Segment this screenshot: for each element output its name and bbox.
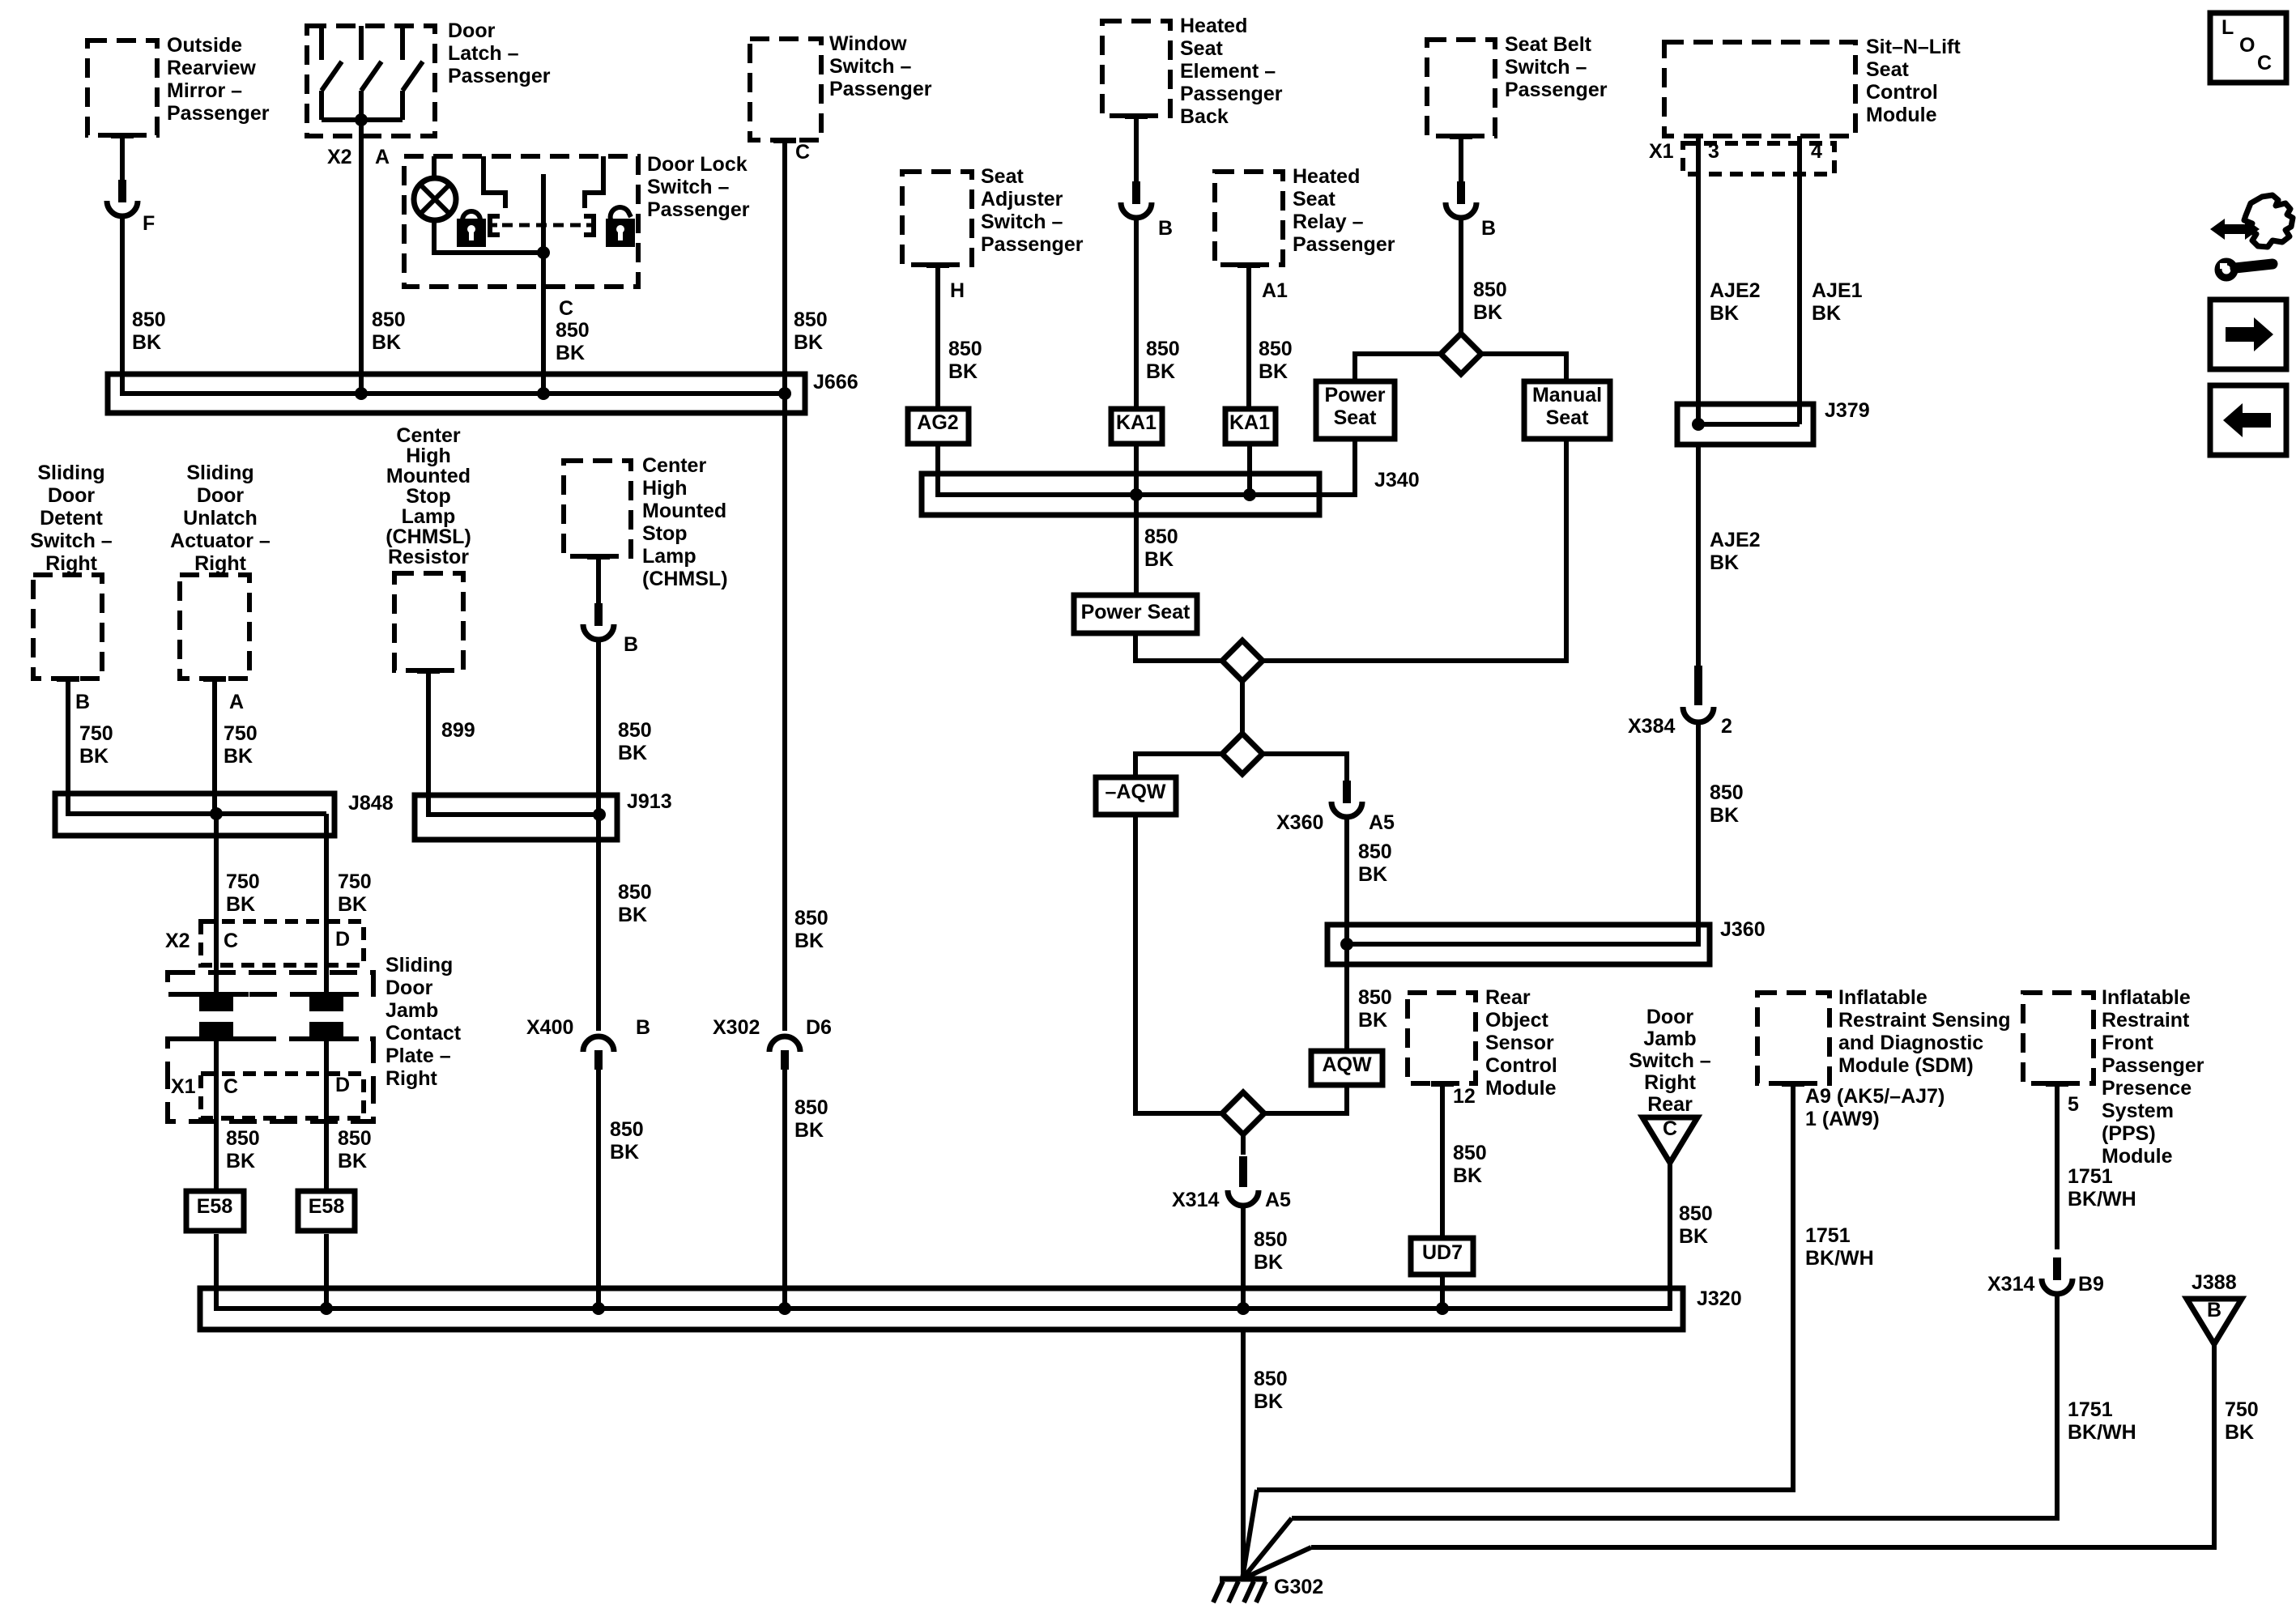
splice J360 internal wire — [1347, 925, 1698, 944]
svg-text:F: F — [143, 212, 155, 235]
label J388 — [2192, 1271, 2237, 1294]
wire ground fan X314 B9 — [1242, 1518, 1292, 1579]
svg-text:D6: D6 — [806, 1016, 832, 1039]
splice diamond 2 (AQW) — [1222, 734, 1263, 774]
ground label G302 — [1274, 1576, 1323, 1598]
junction J913 CHMSL wire — [593, 808, 606, 821]
wire seat belt switch pin B to connector — [1459, 139, 1463, 186]
svg-text:X302: X302 — [713, 1016, 760, 1039]
pin label C (window switch) — [795, 141, 810, 164]
pin label B (CHMSL) — [624, 633, 638, 656]
junction J340 KA1 relay — [1243, 488, 1256, 501]
code box KA1 (element) — [1111, 409, 1162, 444]
switch contact 1 (door latch) — [322, 26, 342, 120]
connector label X314 (B9) — [1987, 1273, 2034, 1296]
wire J340 to Power Seat tag — [1134, 495, 1139, 595]
splice J320 (splice pack box) — [200, 1288, 1683, 1330]
junction J320 E58 D wire — [320, 1302, 333, 1315]
wire KA1 element to splice J340 — [1134, 444, 1139, 495]
svg-text:850BK: 850BK — [794, 309, 828, 354]
wire label 750 BK (unlatch) — [224, 722, 258, 768]
svg-text:X360: X360 — [1276, 811, 1323, 834]
wire J388 to ground G302 — [1311, 1344, 2214, 1547]
svg-text:J360: J360 — [1720, 918, 1766, 941]
wire J913 to connector X400 — [596, 815, 601, 1031]
svg-text:–AQW: –AQW — [1105, 781, 1166, 803]
wire rear object sensor to code UD7 — [1440, 1087, 1445, 1238]
wire diamond 2 to connector X360 — [1263, 754, 1347, 785]
svg-text:850BK: 850BK — [1473, 279, 1507, 324]
svg-text:B: B — [636, 1016, 650, 1039]
svg-text:B: B — [624, 633, 638, 656]
wire door latch pin A to splice J666 — [359, 120, 364, 394]
contact bracket E lock side — [490, 216, 500, 235]
pin label C (door lock switch) — [559, 297, 573, 320]
splice J320 internal wire — [216, 1288, 1670, 1308]
svg-text:X384: X384 — [1628, 715, 1675, 738]
wire contact plate C to fuse E58 — [214, 1039, 219, 1191]
wire sit-n-lift pin 4 AJE1 to splice J379 — [1797, 136, 1802, 424]
wire connector B to splice diamond — [1459, 219, 1463, 334]
component Sliding Door Unlatch Actuator - Right (dashed box) — [180, 575, 249, 682]
pin label B (X400) — [636, 1016, 650, 1039]
icon hand with wrench — [2210, 195, 2293, 278]
svg-text:A: A — [229, 691, 244, 713]
component Sliding Door Jamb Contact Plate - Right lower (dashed box) — [168, 1039, 373, 1121]
connector inline X314 pin B9 — [2042, 1257, 2072, 1294]
svg-text:D: D — [335, 1074, 350, 1096]
icon box arrow left — [2210, 385, 2286, 455]
wire X384 to splice J360 — [1696, 721, 1701, 944]
svg-text:X2: X2 — [327, 146, 352, 168]
wire connector B to fuse KA1 — [1134, 219, 1139, 409]
option box Power Seat — [1316, 381, 1395, 439]
code box E58 (right) — [298, 1191, 355, 1231]
wire connector F to splice J666 — [120, 217, 125, 394]
svg-text:5: 5 — [2068, 1093, 2079, 1116]
wire label 750 BK (J388) — [2225, 1398, 2259, 1444]
svg-text:850BK: 850BK — [338, 1127, 372, 1172]
junction J666 door lock — [537, 387, 550, 400]
contact plate C lower — [184, 1022, 249, 1039]
switch contact lock side (door lock switch) — [483, 156, 505, 208]
wire label 899 — [441, 719, 475, 742]
connector inline F (ORM) — [107, 180, 138, 216]
svg-text:KA1: KA1 — [1116, 411, 1157, 434]
wire common vertical (door lock switch) — [541, 174, 546, 253]
connector label X360 — [1276, 811, 1323, 834]
pin label D6 (X302) — [806, 1016, 832, 1039]
pin label A (unlatch actuator) — [229, 691, 244, 713]
splice J848 (splice pack box) — [55, 794, 334, 836]
wire label 1751 BK/WH (SDM) — [1805, 1224, 1874, 1270]
pin label 5 (PPS) — [2068, 1093, 2079, 1116]
svg-text:J340: J340 — [1374, 469, 1420, 491]
component Rear Object Sensor Control Module (dashed box) — [1408, 993, 1476, 1087]
label J666 — [813, 371, 858, 394]
wire PPS pin 5 to connector X314 B9 — [2055, 1087, 2060, 1249]
pin label A5 (X360) — [1369, 811, 1395, 834]
svg-text:850BK: 850BK — [1453, 1142, 1487, 1187]
svg-text:X1: X1 — [1649, 140, 1674, 163]
svg-text:X1: X1 — [171, 1075, 196, 1098]
wire label 850 BK (window switch) — [794, 309, 828, 354]
connector strip X1 (sit-n-lift) — [1683, 143, 1834, 174]
label Sliding Door Unlatch Actuator - Right — [170, 462, 270, 575]
wire label 1751 BK/WH (PPS lower) — [2068, 1398, 2136, 1444]
label Seat Adjuster Switch - Passenger — [981, 165, 1084, 256]
label Inflatable Restraint Sensing and Diagnostic Module (SDM) — [1838, 986, 2011, 1077]
wire X314 B9 to ground G302 — [1292, 1295, 2057, 1518]
svg-text:850BK: 850BK — [1679, 1202, 1713, 1248]
svg-text:KA1: KA1 — [1229, 411, 1270, 434]
connector label X2 — [165, 930, 190, 952]
junction J320 X314 wire — [1237, 1302, 1250, 1315]
connector inline X384 pin 2 — [1683, 666, 1714, 722]
label Sit-N-Lift Seat Control Module — [1866, 36, 1961, 126]
pin label B (seat belt switch) — [1481, 217, 1496, 240]
contact plate C upper — [184, 994, 249, 1011]
wire label 850 BK (UD7) — [1453, 1142, 1487, 1187]
svg-text:850BK: 850BK — [794, 907, 829, 952]
pin label B (heated seat element) — [1158, 217, 1173, 240]
svg-text:A1: A1 — [1262, 279, 1288, 302]
wire label 850 BK (door latch) — [372, 309, 406, 354]
junction J666 window switch — [778, 387, 791, 400]
wire splice diamond 1 to splice diamond 2 — [1240, 681, 1245, 734]
svg-text:A5: A5 — [1369, 811, 1395, 834]
code box UD7 — [1411, 1238, 1473, 1274]
svg-text:C: C — [1663, 1117, 1677, 1140]
wire door latch common bus — [322, 117, 403, 122]
label Center High Mounted Stop Lamp (CHMSL) — [642, 454, 728, 590]
wire heated seat element pin B to connector — [1134, 119, 1139, 186]
component Sit-N-Lift Seat Control Module (dashed box) — [1664, 42, 1855, 136]
svg-text:X2: X2 — [165, 930, 190, 952]
connector triangle C (door jamb switch) — [1642, 1117, 1698, 1163]
wire label 1751 BK/WH (PPS upper) — [2068, 1165, 2136, 1211]
contact plate D lower — [294, 1022, 359, 1039]
component Sliding Door Jamb Contact Plate - Right upper (dashed box) — [168, 972, 373, 994]
wire label 850 BK (door jamb) — [1679, 1202, 1713, 1248]
wire label AJE2 BK (lower) — [1710, 529, 1761, 574]
label Door Lock Switch - Passenger — [647, 153, 750, 221]
label Sliding Door Detent Switch - Right — [30, 462, 113, 575]
wire label 850 BK (heated seat relay) — [1259, 338, 1293, 383]
wire diamond 2 to -AQW option — [1135, 754, 1222, 777]
wire door jamb switch to splice J320 — [1668, 1163, 1672, 1308]
pin label C (X1 strip) — [224, 1075, 238, 1098]
wire ground fan SDM — [1242, 1490, 1257, 1579]
wire heated seat relay to fuse KA1 — [1246, 268, 1251, 409]
wire label 850 BK (above J360) — [1358, 840, 1392, 886]
svg-text:C: C — [559, 297, 573, 320]
wire splice diamond 3 to connector X314 — [1241, 1134, 1246, 1155]
wire J379 to connector X384 — [1696, 445, 1701, 667]
switch contact 3 (door latch) — [403, 26, 423, 120]
svg-text:C: C — [224, 1075, 238, 1098]
contact plate D upper — [294, 994, 359, 1011]
pin label A5 (X314) — [1265, 1189, 1291, 1211]
svg-text:E58: E58 — [309, 1195, 345, 1218]
label Door Jamb Switch - Right Rear — [1629, 1006, 1711, 1116]
junction J666 door latch — [355, 387, 368, 400]
svg-text:899: 899 — [441, 719, 475, 742]
connector label X302 — [713, 1016, 760, 1039]
wire lamp to common (door lock switch) — [434, 219, 543, 253]
svg-text:850BK: 850BK — [1254, 1228, 1288, 1274]
option box AQW — [1311, 1051, 1382, 1085]
wire X360 to splice J360 — [1344, 818, 1349, 944]
wire CHMSL pin B to connector — [596, 560, 601, 608]
svg-text:850BK: 850BK — [226, 1127, 260, 1172]
svg-text:850BK: 850BK — [372, 309, 406, 354]
ground G302 — [1213, 1579, 1267, 1602]
splice diamond (seat belt) — [1441, 334, 1481, 374]
pin label B9 (X314) — [2078, 1273, 2104, 1296]
wire UD7 to splice J320 — [1440, 1274, 1445, 1308]
component Door Latch - Passenger (dashed box) — [307, 26, 435, 136]
wire Power Seat option to splice J340 — [1352, 439, 1357, 495]
connector inline X400 pin B — [583, 1036, 614, 1070]
component CHMSL Resistor (dashed box) — [394, 573, 463, 674]
wire X314 A5 to splice J320 — [1241, 1206, 1246, 1308]
splice J340 internal wire — [938, 474, 1355, 495]
svg-text:850BK: 850BK — [948, 338, 982, 383]
svg-text:850BK: 850BK — [1146, 338, 1180, 383]
splice diamond 3 (AQW join) — [1222, 1092, 1264, 1134]
pin label B (detent switch) — [75, 691, 90, 713]
wire label 850 BK (ground wire) — [1254, 1368, 1288, 1413]
option box -AQW — [1096, 777, 1176, 815]
wire label 850 BK (power seat tag) — [1144, 526, 1178, 571]
wire label 750 BK (detent) — [79, 722, 113, 768]
svg-text:A: A — [375, 146, 390, 168]
wire diamond to Power Seat option — [1355, 354, 1441, 381]
label J360 — [1720, 918, 1766, 941]
svg-text:J913: J913 — [627, 790, 672, 813]
label Center High Mounted Stop Lamp (CHMSL) Resistor — [386, 424, 471, 568]
label Sliding Door Jamb Contact Plate - Right — [386, 954, 462, 1090]
wire Power Seat tag to splice diamond 1 — [1135, 633, 1222, 661]
svg-text:E58: E58 — [197, 1195, 233, 1218]
svg-text:850BK: 850BK — [1144, 526, 1178, 571]
wire label 850 BK (below J360) — [1358, 986, 1392, 1032]
component Seat Adjuster Switch - Passenger (dashed box) — [902, 172, 972, 268]
wire AQW option to splice diamond 3 — [1264, 1085, 1347, 1113]
label Outside Rearview Mirror - Passenger — [167, 34, 270, 125]
svg-text:UD7: UD7 — [1422, 1241, 1463, 1264]
connector inline B (CHMSL) — [583, 603, 614, 640]
label J848 — [348, 792, 394, 815]
component Heated Seat Element - Passenger Back (dashed box) — [1102, 21, 1170, 119]
label Rear Object Sensor Control Module — [1485, 986, 1557, 1100]
wire X302 to splice J320 — [782, 1070, 787, 1308]
label Inflatable Restraint Front Passenger Presence System (PPS) Module — [2102, 986, 2204, 1168]
splice J913 (splice pack box) — [415, 795, 617, 840]
connector strip X2 (sliding door jamb) — [201, 921, 364, 965]
label Window Switch - Passenger — [829, 32, 932, 100]
pin label 4 (sit-n-lift) — [1811, 140, 1822, 163]
svg-text:Power Seat: Power Seat — [1081, 601, 1191, 623]
pin label 2 (X384) — [1721, 715, 1732, 738]
component Outside Rearview Mirror - Passenger (dashed box) — [87, 40, 157, 138]
svg-text:850BK: 850BK — [1259, 338, 1293, 383]
wire J666 to connector X302 (window circuit) — [782, 394, 787, 1031]
wire door lock pin C to splice J666 — [541, 253, 546, 394]
svg-text:D: D — [335, 928, 350, 951]
wire J848 to contact plate C — [214, 814, 219, 994]
label Heated Seat Element - Passenger Back — [1180, 15, 1283, 128]
splice diamond 1 (power seat) — [1222, 640, 1263, 681]
svg-text:850BK: 850BK — [618, 881, 652, 926]
svg-text:L: L — [2221, 16, 2234, 39]
svg-text:B: B — [75, 691, 90, 713]
connector inline X314 pin A5 — [1228, 1156, 1259, 1206]
svg-text:850BK: 850BK — [610, 1118, 644, 1164]
connector label X384 — [1628, 715, 1675, 738]
svg-text:J666: J666 — [813, 371, 858, 394]
wire Manual Seat option to splice diamond 1 — [1263, 439, 1566, 661]
pin label D (X2 strip) — [335, 928, 350, 951]
svg-text:850BK: 850BK — [1358, 840, 1392, 886]
connector strip X1 (sliding door jamb) — [201, 1074, 364, 1118]
svg-text:C: C — [2257, 52, 2272, 74]
label J340 — [1374, 469, 1420, 491]
wire diamond to Manual Seat option — [1481, 354, 1566, 381]
wire label AJE2 BK (upper) — [1710, 279, 1761, 325]
svg-text:2: 2 — [1721, 715, 1732, 738]
wire label 850 BK (heated seat element) — [1146, 338, 1180, 383]
connector label X400 — [526, 1016, 573, 1039]
wire label 850 BK (above J320 center) — [1254, 1228, 1288, 1274]
component Center High Mounted Stop Lamp CHMSL (dashed box) — [564, 461, 631, 560]
svg-text:G302: G302 — [1274, 1576, 1323, 1598]
svg-text:C: C — [795, 141, 810, 164]
wire seat adjuster to fuse AG2 — [935, 268, 940, 409]
junction door latch common — [355, 113, 368, 126]
pin label A (door latch) — [375, 146, 390, 168]
svg-text:750BK: 750BK — [2225, 1398, 2259, 1444]
wire connector B to splice J913 — [596, 640, 601, 815]
wire window switch to splice J666 — [782, 143, 787, 394]
wire label 850 BK (ORM) — [132, 309, 166, 354]
label J913 — [627, 790, 672, 813]
connector label X314 (A5) — [1172, 1189, 1219, 1211]
icon padlock closed (lock) — [457, 211, 486, 247]
component Sliding Door Detent Switch - Right (dashed box) — [33, 575, 102, 682]
pin label 12 (rear object sensor) — [1453, 1085, 1476, 1108]
contact bracket unlock side — [584, 216, 594, 235]
switch contact unlock side (door lock switch) — [585, 156, 603, 208]
pin label F — [143, 212, 155, 235]
wire label 850 BK (E58 D) — [338, 1127, 372, 1172]
mechanical link dashed (door lock switch) — [502, 223, 581, 228]
svg-text:850BK: 850BK — [1254, 1368, 1288, 1413]
wire E58 left to splice J320 — [214, 1234, 219, 1308]
svg-text:O: O — [2239, 34, 2255, 57]
wire unlatch actuator to splice J848 — [212, 682, 217, 814]
wire -AQW option to splice diamond 3 — [1135, 815, 1222, 1113]
svg-text:X314: X314 — [1987, 1273, 2034, 1296]
connector label X2 (door latch) — [327, 146, 352, 168]
splice J848 internal wire — [68, 794, 326, 814]
svg-text:750BK: 750BK — [79, 722, 113, 768]
svg-text:850BK: 850BK — [794, 1096, 829, 1142]
svg-text:850BK: 850BK — [1710, 781, 1744, 827]
connector inline X360 pin A5 — [1331, 781, 1362, 817]
svg-text:4: 4 — [1811, 140, 1822, 163]
splice J666 internal wire — [122, 374, 785, 394]
component Inflatable Restraint Sensing and Diagnostic Module SDM (dashed box) — [1757, 993, 1830, 1087]
splice J379 internal wire — [1698, 422, 1800, 427]
component Heated Seat Relay - Passenger (dashed box) — [1215, 172, 1283, 268]
svg-text:750BK: 750BK — [338, 870, 372, 916]
junction J320 X400 wire — [592, 1302, 605, 1315]
svg-text:850BK: 850BK — [618, 719, 652, 764]
svg-text:B: B — [2207, 1299, 2221, 1321]
pin label A1 (heated seat relay) — [1262, 279, 1288, 302]
component Inflatable Restraint Front Passenger Presence System PPS Module (dashed box) — [2023, 993, 2094, 1087]
wire label 850 BK (E58 C) — [226, 1127, 260, 1172]
connector triangle B (J388) — [2187, 1299, 2242, 1344]
pin label H (seat adjuster) — [950, 279, 965, 302]
junction J320 UD7 wire — [1436, 1302, 1449, 1315]
component Seat Belt Switch - Passenger (dashed box) — [1427, 40, 1495, 139]
wire J320 to ground G302 — [1241, 1330, 1246, 1579]
pin label D (X1 strip) — [335, 1074, 350, 1096]
wire label 850 BK (X384) — [1710, 781, 1744, 827]
label Seat Belt Switch - Passenger — [1505, 33, 1608, 101]
wire label AJE1 BK — [1812, 279, 1863, 325]
svg-text:B: B — [1158, 217, 1173, 240]
wire label 850 BK (seat adjuster) — [948, 338, 982, 383]
junction J320 X302 wire — [778, 1302, 791, 1315]
label Heated Seat Relay - Passenger — [1293, 165, 1395, 256]
splice J913 internal wire — [428, 795, 599, 815]
wire lamp feed stub (door lock switch) — [432, 156, 437, 179]
svg-text:850BK: 850BK — [132, 309, 166, 354]
junction J379 AJE2 — [1692, 418, 1705, 431]
icon box L O C — [2210, 13, 2286, 83]
wire label 850 BK (below X302) — [794, 1096, 829, 1142]
connector label X1 (sit-n-lift) — [1649, 140, 1674, 163]
junction J340 KA1 element — [1130, 488, 1143, 501]
pin label A9 (AK5/-AJ7) 1 (AW9) — [1805, 1085, 1945, 1130]
option tag box Power Seat — [1074, 595, 1197, 633]
junction J848 unlatch wire — [210, 807, 223, 820]
junction J360 A5 wire — [1340, 938, 1353, 951]
junction door lock common — [537, 246, 550, 259]
wire ORM pin F to connector — [120, 138, 125, 185]
wire CHMSL resistor to splice J913 — [426, 674, 431, 815]
svg-text:12: 12 — [1453, 1085, 1476, 1108]
svg-text:850BK: 850BK — [1358, 986, 1392, 1032]
option box Manual Seat — [1524, 381, 1610, 439]
connector inline B (seat belt switch) — [1446, 181, 1476, 218]
svg-text:850BK: 850BK — [556, 319, 590, 364]
svg-text:J848: J848 — [348, 792, 394, 815]
wire label 850 BK (door lock) — [556, 319, 590, 364]
wire E58 right to splice J320 — [324, 1234, 329, 1308]
label J320 — [1697, 1287, 1742, 1310]
pin label 3 (sit-n-lift) — [1708, 140, 1719, 163]
wire label 850 BK (seat belt switch) — [1473, 279, 1507, 324]
component Door Lock Switch - Passenger (dashed box) — [404, 156, 638, 287]
svg-text:J388: J388 — [2192, 1271, 2237, 1294]
wire label 850 BK (above X400) — [618, 881, 652, 926]
wire J360 to AQW option — [1344, 944, 1349, 1051]
